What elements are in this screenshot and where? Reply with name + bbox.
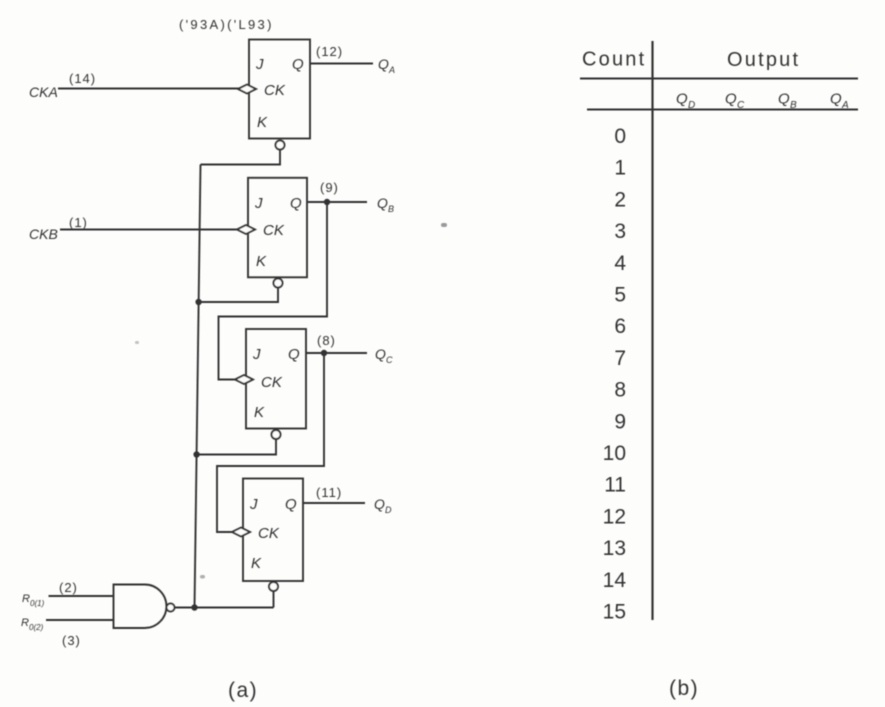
table column label QA (830, 91, 849, 112)
label QA (378, 56, 395, 75)
pin label (12) (316, 44, 343, 59)
wire R0(2) input (46, 619, 114, 621)
pin label (3) (62, 633, 81, 648)
svg-text:Q: Q (676, 91, 688, 108)
svg-text:A: A (388, 65, 395, 75)
svg-text:13: 13 (603, 537, 626, 560)
svg-text:C: C (386, 355, 393, 365)
svg-text:(a): (a) (228, 679, 258, 702)
svg-text:B: B (790, 100, 797, 111)
svg-text:K: K (257, 114, 268, 131)
label CKA (29, 84, 58, 100)
wire U5 output to reset line and U4 clear (175, 607, 274, 609)
chip type label ('93A)('L93) (179, 17, 274, 32)
svg-text:Q: Q (725, 91, 737, 108)
wire QD output (303, 502, 365, 504)
flip-flop U1 (FF A) box with J, CK, K, Q labels (249, 40, 310, 139)
flip-flop U2 (FF B) box with J, CK, K, Q labels (248, 178, 307, 277)
wire U1 clear stub to reset line (201, 150, 281, 165)
svg-text:(2): (2) (59, 580, 78, 595)
svg-text:Count: Count (582, 49, 646, 71)
svg-text:Q: Q (778, 91, 790, 108)
wire QB to U3 clock (219, 202, 328, 380)
svg-text:11: 11 (604, 474, 626, 497)
svg-text:D: D (385, 505, 392, 515)
svg-text:K: K (251, 555, 262, 572)
svg-text:J: J (249, 496, 258, 513)
table header Count (582, 49, 646, 71)
U2 clear bubble (274, 279, 283, 288)
wire CKA input (58, 88, 239, 90)
svg-text:J: J (254, 195, 263, 212)
pin label (1) (69, 215, 88, 230)
caption (a) (228, 679, 258, 702)
node junction reset/U2 (195, 299, 201, 305)
svg-text:(12): (12) (316, 44, 343, 59)
U3 CK dynamic-input indicator (235, 375, 253, 384)
svg-text:D: D (688, 100, 695, 111)
svg-text:R: R (22, 593, 30, 605)
pin label (8) (317, 333, 336, 348)
table header Output (727, 49, 800, 71)
svg-text:1: 1 (614, 157, 626, 180)
label R0(1) (22, 593, 45, 608)
flip-flop U3 (FF C) box with J, CK, K, Q labels (246, 329, 306, 429)
svg-text:14: 14 (603, 569, 627, 592)
table horizontal rule 2 (587, 109, 858, 111)
svg-text:(1): (1) (69, 215, 88, 230)
label R0(2) (21, 617, 44, 632)
wire U4 clear stub (273, 591, 275, 608)
table column label QC (725, 91, 745, 112)
label CKB (29, 226, 58, 242)
svg-text:4: 4 (614, 252, 626, 275)
U1 clear bubble (276, 141, 285, 150)
svg-text:8: 8 (614, 379, 626, 402)
svg-text:Q: Q (375, 346, 386, 362)
svg-text:(14): (14) (69, 71, 96, 86)
svg-text:0(1): 0(1) (30, 599, 45, 608)
U4 CK dynamic-input indicator (232, 528, 250, 537)
svg-text:5: 5 (614, 284, 626, 307)
wire QC to U4 clock (217, 353, 324, 532)
svg-text:2: 2 (614, 188, 626, 211)
scan speck near reset line (200, 575, 205, 579)
svg-text:K: K (256, 253, 267, 270)
table column label QD (676, 91, 695, 112)
svg-text:J: J (252, 346, 261, 363)
svg-text:CK: CK (264, 82, 286, 99)
pin label (9) (320, 180, 339, 195)
U5 output bubble (167, 604, 175, 612)
svg-text:B: B (388, 204, 394, 214)
node junction reset/U5 (191, 604, 197, 610)
svg-text:0: 0 (614, 125, 626, 148)
svg-text:R: R (21, 617, 29, 629)
scan speck left area (135, 341, 139, 344)
svg-text:Q: Q (285, 496, 297, 513)
svg-text:CKB: CKB (29, 226, 58, 242)
svg-text:CK: CK (258, 525, 280, 542)
wire QB output (307, 201, 367, 203)
svg-text:C: C (737, 100, 745, 111)
flip-flop U4 (FF D) box with J, CK, K, Q labels (243, 479, 303, 582)
svg-text:Q: Q (290, 195, 302, 212)
svg-text:CKA: CKA (29, 84, 58, 100)
label QB (377, 195, 394, 214)
NAND gate U5 (R0 reset gate) (114, 585, 167, 629)
svg-text:15: 15 (603, 601, 626, 624)
svg-text:J: J (255, 56, 264, 73)
table horizontal rule 1 (580, 78, 858, 80)
wire reset vertical line (195, 165, 201, 608)
svg-text:7: 7 (614, 347, 626, 370)
svg-text:CK: CK (261, 374, 283, 391)
table vertical rule (651, 41, 653, 620)
svg-text:A: A (841, 100, 849, 111)
U2 CK dynamic-input indicator (237, 225, 255, 234)
svg-text:12: 12 (603, 505, 626, 528)
wire R0(1) input (49, 595, 114, 597)
svg-text:(b): (b) (669, 677, 699, 700)
U1 CK dynamic-input indicator (238, 85, 256, 94)
svg-text:0(2): 0(2) (29, 623, 44, 632)
svg-text:(9): (9) (320, 180, 339, 195)
svg-text:Q: Q (288, 346, 300, 363)
svg-text:CK: CK (263, 222, 285, 239)
svg-text:10: 10 (603, 442, 626, 465)
svg-text:(3): (3) (62, 633, 81, 648)
wire QC output (306, 352, 367, 354)
wire CKB input (60, 229, 238, 231)
svg-text:Q: Q (377, 195, 388, 211)
U3 clear bubble (272, 430, 281, 439)
pin label (14) (69, 71, 96, 86)
node junction QC (321, 350, 327, 356)
svg-text:Q: Q (292, 56, 304, 73)
pin label (11) (316, 485, 342, 500)
label QD (374, 496, 392, 515)
U4 clear bubble (269, 582, 278, 591)
svg-text:Q: Q (374, 496, 385, 512)
wire U3 clear stub to reset line (197, 439, 276, 455)
table count values 0-15 (603, 125, 627, 624)
svg-text:Q: Q (830, 91, 842, 108)
svg-text:3: 3 (614, 220, 626, 243)
scan speck near node (441, 223, 447, 227)
svg-text:(11): (11) (316, 485, 342, 500)
node junction QB (324, 199, 330, 205)
pin label (2) (59, 580, 78, 595)
wire QA output (310, 63, 373, 65)
svg-text:Output: Output (727, 49, 800, 71)
wire U2 clear stub to reset line (199, 288, 278, 303)
svg-text:Q: Q (378, 56, 389, 72)
caption (b) (669, 677, 699, 700)
svg-text:(8): (8) (317, 333, 336, 348)
svg-text:9: 9 (614, 410, 626, 433)
svg-text:6: 6 (614, 315, 626, 338)
label QC (375, 346, 393, 365)
table column label QB (778, 91, 797, 112)
svg-text:K: K (254, 404, 265, 421)
node junction reset/U3 (193, 451, 199, 457)
svg-text:('93A)('L93): ('93A)('L93) (179, 17, 274, 32)
